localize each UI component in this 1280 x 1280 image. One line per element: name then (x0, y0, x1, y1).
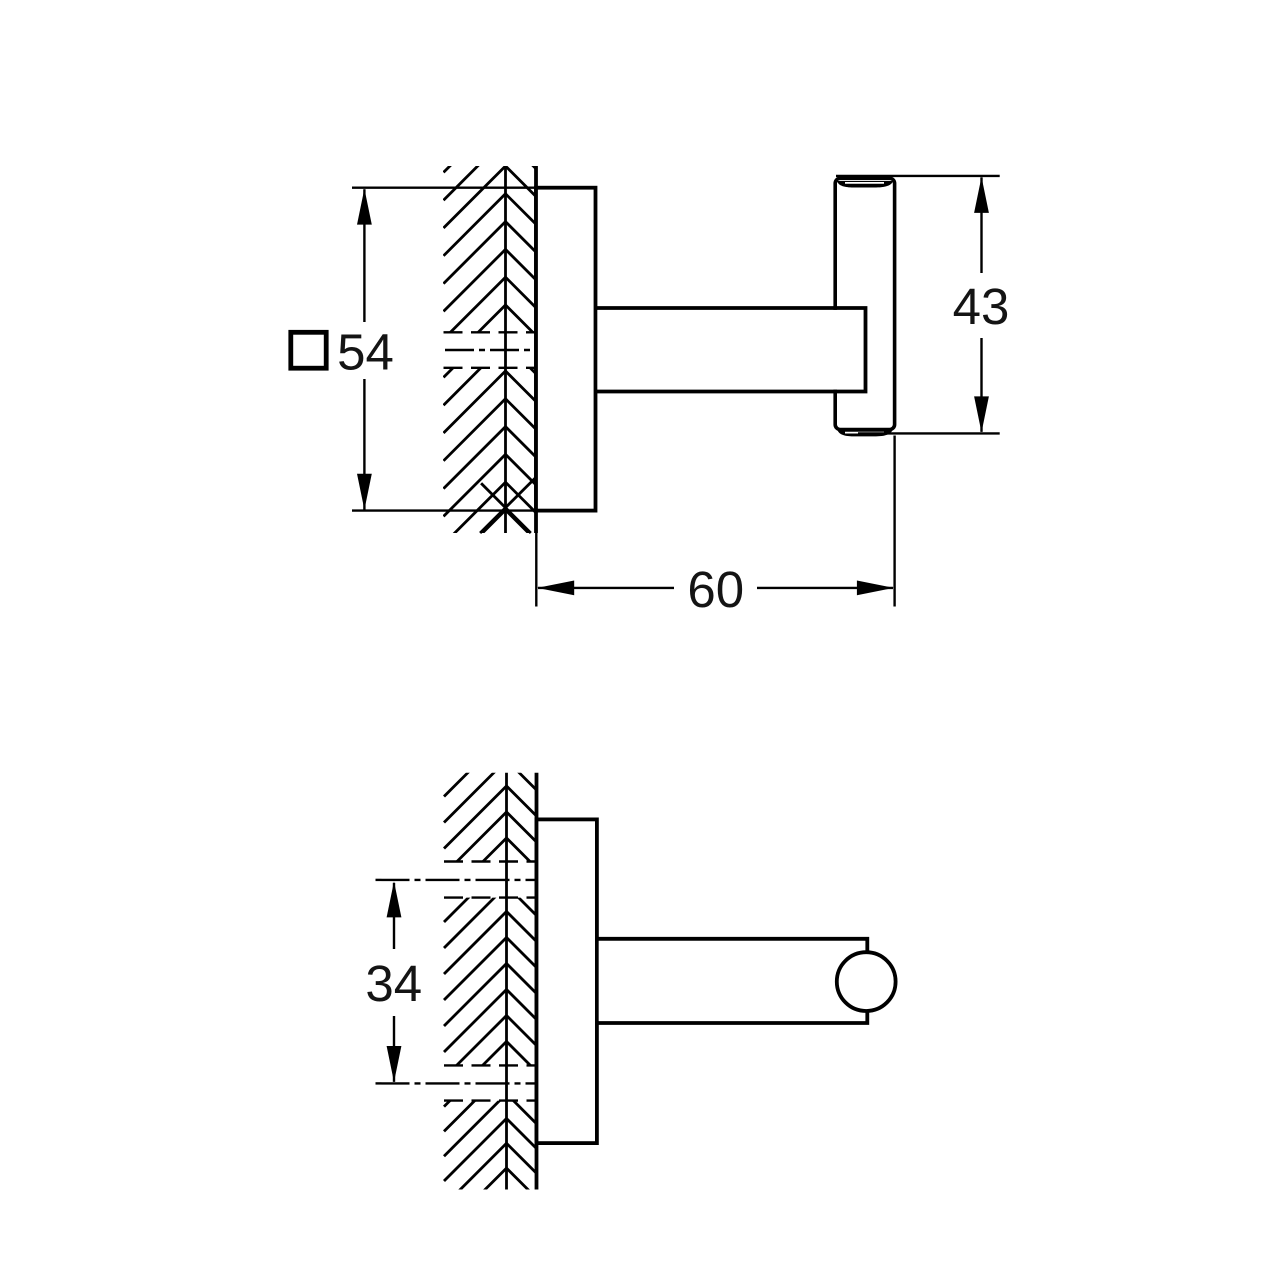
wall surface line (bottom view) (505, 773, 508, 1190)
lower hole centerline (bottom view) (376, 1082, 540, 1084)
wall hatching upper section (bottom view) (444, 708, 537, 927)
dimension square-54 (top view) (291, 188, 536, 511)
wall plate (bottom view) (537, 819, 597, 1143)
wall plate (top view) (536, 188, 596, 511)
dimension 60 (top view) (536, 436, 894, 618)
wall hatching lower section (top view) (444, 315, 537, 599)
svg-text:60: 60 (687, 561, 744, 618)
wall surface line (top view) (504, 166, 507, 533)
wall finish layer line (top view) (534, 166, 538, 533)
mounting hole centerline (top view) (445, 349, 534, 351)
hook bar (top view) (835, 178, 894, 436)
hook arm (top view) (596, 306, 866, 393)
upper hole centerline (bottom view) (376, 879, 540, 881)
svg-text:34: 34 (365, 955, 422, 1012)
wall hatching middle section (bottom view) (444, 834, 537, 1131)
mounting hole hidden edge lower (top view) (444, 367, 537, 369)
hatch crossing lines near plate bottom (top view) (480, 477, 536, 533)
upper hole hidden edges (bottom view) (444, 860, 537, 862)
wall hatching upper section (top view) (444, 83, 537, 395)
hook ball end (bottom view) (837, 952, 896, 1011)
svg-text:54: 54 (337, 323, 394, 380)
mounting hole hidden edge upper (top view) (444, 331, 537, 333)
hook arm (bottom view) (597, 937, 867, 1025)
wall finish layer line (bottom view) (535, 773, 539, 1190)
svg-text:43: 43 (953, 278, 1010, 335)
dimension 34 (bottom view) (365, 881, 422, 1082)
lower hole hidden edges (bottom view) (444, 1064, 537, 1066)
dimension 43 (top view) (836, 176, 1009, 434)
wall hatching lower section (bottom view) (444, 1044, 537, 1255)
